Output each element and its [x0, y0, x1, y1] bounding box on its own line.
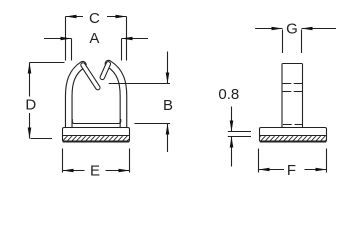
dimension B: extension lines [109, 84, 170, 124]
front view: left arm interior (white over-stroke) [69, 65, 83, 128]
front view: base hatching [58, 136, 132, 141]
dimension B: top arrowhead [166, 73, 170, 84]
dimension 0.8: down arrowhead [230, 121, 234, 132]
front view: left prong interior (white core) [83, 65, 98, 88]
dimension F: extension lines [259, 149, 327, 173]
dimension D: bottom arrowhead [28, 128, 32, 139]
side view: base plate outline [260, 128, 327, 142]
dimension 0.8: extension lines [228, 132, 251, 137]
dimension G: extension lines [283, 30, 302, 54]
svg-text:A: A [89, 30, 99, 47]
svg-text:E: E [90, 163, 100, 180]
dimension C: right arrowhead [116, 15, 127, 19]
dimension C: dimension line segments [66, 16, 127, 18]
dimension F: left arrowhead [259, 168, 270, 172]
dimension D: dimension line segments [29, 63, 31, 139]
side view: base bottom thick line [260, 141, 326, 143]
dimension D: top arrowhead [28, 63, 32, 74]
dimension E: dimension line segments [63, 170, 130, 172]
dimension C: left arrowhead [66, 15, 77, 19]
dimension E: extension lines [63, 149, 130, 173]
front view: left arm outline (thick black under-stroke) [69, 65, 83, 128]
front view: base mid line [63, 135, 130, 137]
side view: post hidden dash line lower [283, 91, 302, 93]
dimension A: leader lines outside [44, 38, 148, 40]
svg-text:G: G [286, 21, 298, 38]
front view: right arm interior (white over-stroke) [109, 64, 124, 128]
dimension D: extension lines [30, 63, 65, 139]
dimension G: left arrowhead [272, 27, 283, 31]
front view: inner arch bottom [72, 119, 121, 124]
front view: base plate outline [63, 128, 130, 142]
dimension A: right arrowhead [122, 37, 133, 41]
dimension F: dimension line segments [259, 169, 327, 171]
side view: post hidden dash line upper [283, 83, 302, 85]
dimension F: right arrowhead [316, 168, 327, 172]
dimension 0.8: leader lines outside [231, 107, 233, 167]
side view: base hatching [256, 136, 330, 141]
dimension 0.8: up arrowhead [230, 137, 234, 148]
dimension E: right arrowhead [119, 169, 130, 173]
front view: right arm outline (thick black under-stroke) [109, 64, 124, 128]
side view: post hidden dash line at base [283, 124, 302, 126]
svg-text:C: C [89, 10, 100, 27]
front view: left prong outline (black capsule) [83, 65, 98, 88]
dimension G: right arrowhead [302, 27, 313, 31]
dimension C: extension lines [66, 17, 127, 61]
side view: base mid line [260, 135, 327, 137]
svg-text:0.8: 0.8 [218, 86, 239, 103]
dimension G: leader lines outside [255, 28, 336, 30]
front view: right prong interior (white core) [102, 64, 108, 78]
dimension A: extension lines [72, 39, 122, 61]
front view: white cover over base top band [63, 128, 129, 134]
dimension B: leader lines outside [167, 52, 169, 153]
svg-text:D: D [25, 97, 36, 114]
front view: base bottom thick line [63, 141, 129, 143]
svg-text:F: F [287, 162, 296, 179]
front view: right prong outline (black capsule) [102, 64, 108, 78]
dimension B: bottom arrowhead [166, 124, 170, 135]
dimension A: left arrowhead [61, 37, 72, 41]
side view: post outline [282, 64, 303, 128]
svg-text:B: B [163, 97, 173, 114]
dimension E: left arrowhead [63, 169, 74, 173]
